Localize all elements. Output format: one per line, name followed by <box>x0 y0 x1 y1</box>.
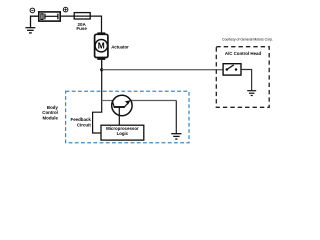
svg-text:Fuse: Fuse <box>76 26 87 31</box>
ground G1 <box>25 28 35 33</box>
label 20A Fuse <box>76 22 87 31</box>
wire switch to ground <box>241 70 252 91</box>
wire down to ground G3 <box>175 101 177 134</box>
svg-text:Courtesy of General Motors Cor: Courtesy of General Motors Corp. <box>222 38 273 42</box>
wire junction to A/C control head switch <box>102 69 223 71</box>
fuse F1 <box>74 13 90 19</box>
wire to transistor collector <box>102 100 113 102</box>
wire motor bottom to junction <box>101 60 103 70</box>
battery negative terminal <box>30 8 35 13</box>
label Body Control Module <box>42 105 58 121</box>
wire feedback path to microprocessor <box>93 70 102 133</box>
wire battery to fuse to motor top <box>60 16 101 33</box>
svg-text:Feedback: Feedback <box>71 117 92 122</box>
transistor Q1 <box>112 95 132 125</box>
svg-text:Logic: Logic <box>117 131 129 136</box>
switch S1 <box>223 64 241 75</box>
svg-text:Module: Module <box>43 115 59 120</box>
svg-text:Actuator: Actuator <box>111 44 129 49</box>
actuator motor M1 <box>95 32 108 60</box>
ground G2 <box>247 91 256 96</box>
A/C control head dashed box <box>216 47 269 108</box>
microprocessor logic box U2 <box>101 125 144 140</box>
svg-text:M: M <box>98 41 105 51</box>
wire transistor emitter to ground <box>130 100 176 102</box>
label Feedback Circuit <box>71 117 92 128</box>
wire battery left to ground <box>31 16 39 27</box>
svg-text:Control: Control <box>42 110 58 115</box>
svg-text:Circuit: Circuit <box>77 123 91 128</box>
svg-text:Body: Body <box>47 105 59 110</box>
battery B1 <box>39 12 60 21</box>
ground G3 <box>171 134 181 139</box>
svg-text:A/C Control Head: A/C Control Head <box>225 51 262 56</box>
battery positive terminal <box>63 7 68 12</box>
BCM dashed box <box>66 91 189 142</box>
node junction <box>100 68 103 71</box>
